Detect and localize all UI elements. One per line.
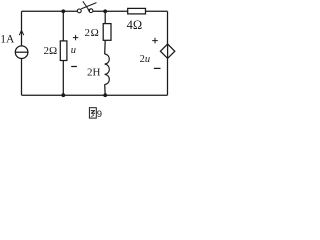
switch S blade [81, 3, 96, 9]
svg-text:4Ω: 4Ω [127, 18, 143, 32]
wire right vertical lower [167, 58, 169, 95]
dependent source E1 diamond [160, 44, 174, 58]
wire branch1 lower [62, 61, 64, 96]
switch S right contact [89, 9, 93, 13]
switch S motion arrow [83, 1, 90, 10]
current source Is circle [15, 46, 28, 59]
wire right vertical upper [167, 11, 169, 44]
node top A junction dot [61, 9, 65, 13]
label + of u [73, 35, 78, 40]
svg-text:2u: 2u [140, 54, 151, 65]
current source Is arrow [19, 30, 24, 35]
svg-text:9: 9 [97, 109, 102, 120]
label + of source [152, 38, 158, 44]
wire top segment R3 to corner [146, 10, 168, 12]
svg-text:2Ω: 2Ω [44, 45, 58, 57]
node bottom A junction dot [61, 93, 65, 97]
svg-text:2H: 2H [87, 66, 101, 78]
node bottom B junction dot [103, 93, 107, 97]
wire branch2 R2 to L [104, 40, 107, 54]
node top B junction dot [103, 9, 107, 13]
current source Is bar [15, 51, 28, 53]
wire bottom horizontal [22, 94, 168, 96]
wire branch2 L to bottom [104, 84, 107, 95]
label minus of source [154, 67, 161, 69]
svg-text:1A: 1A [0, 33, 15, 45]
wire left vertical below current source [21, 59, 23, 96]
svg-text:u: u [71, 45, 76, 56]
caption tu glyph box [89, 108, 96, 118]
dependent source E1 internal lead [167, 44, 169, 58]
resistor R2 2ohm body [103, 24, 111, 41]
wire top segment switch to R3 [93, 10, 128, 12]
wire top-left horizontal segment [22, 10, 78, 12]
resistor R3 4ohm body [128, 8, 146, 14]
wire branch1 upper [62, 11, 64, 41]
switch S left contact [77, 9, 81, 13]
wire branch2 node to R2 [104, 11, 106, 23]
inductor L 2H coil [105, 54, 110, 84]
resistor R1 2ohm body [60, 41, 67, 61]
label minus of u [71, 66, 77, 68]
svg-text:2Ω: 2Ω [85, 27, 100, 39]
wire left vertical above current source [21, 11, 23, 46]
